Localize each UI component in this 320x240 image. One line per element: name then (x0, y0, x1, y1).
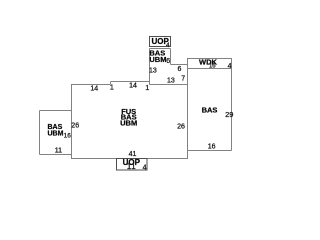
main block top edge C (150, 84, 188, 86)
svg-text:14: 14 (129, 83, 137, 90)
svg-text:BAS: BAS (202, 106, 218, 115)
main block 1ft step (110, 82, 112, 85)
svg-text:16: 16 (208, 144, 216, 151)
svg-text:1: 1 (145, 85, 149, 92)
WDK bottom edge (188, 68, 232, 70)
main block top edge B (111, 81, 151, 83)
svg-text:11: 11 (127, 162, 137, 171)
left box bottom (40, 154, 72, 156)
main block right wall (187, 58, 189, 159)
porch bottom jog (171, 64, 188, 66)
svg-text:1: 1 (110, 85, 114, 92)
svg-text:11: 11 (55, 148, 62, 155)
svg-text:7: 7 (181, 75, 185, 82)
porch left wall (149, 49, 151, 85)
BAS right box bottom (188, 150, 232, 152)
svg-text:13: 13 (149, 67, 157, 74)
svg-text:UBM: UBM (48, 130, 64, 137)
WDK right and BAS right wall (231, 58, 233, 151)
svg-text:26: 26 (177, 124, 185, 131)
svg-text:6: 6 (166, 58, 170, 65)
main block top edge A (71, 84, 111, 86)
svg-text:4: 4 (143, 165, 147, 172)
svg-text:4: 4 (166, 42, 170, 49)
svg-text:13: 13 (167, 77, 175, 84)
svg-text:26: 26 (71, 123, 79, 130)
svg-text:29: 29 (225, 110, 233, 119)
svg-text:4: 4 (228, 63, 232, 70)
main block left wall (71, 84, 73, 159)
main block bottom edge (71, 158, 188, 160)
porch top edge (150, 48, 171, 50)
svg-text:16: 16 (64, 133, 72, 140)
left box left wall (39, 111, 41, 155)
svg-text:14: 14 (90, 85, 98, 92)
porch right wall (170, 49, 172, 65)
left box top (40, 110, 72, 112)
svg-text:6: 6 (178, 66, 182, 73)
UOP box top porch (150, 37, 171, 47)
svg-text:UBM: UBM (120, 118, 137, 127)
svg-text:16: 16 (209, 64, 216, 70)
bottom UOP box (117, 159, 148, 171)
WDK top edge (188, 58, 232, 60)
svg-text:UBM: UBM (149, 55, 166, 64)
